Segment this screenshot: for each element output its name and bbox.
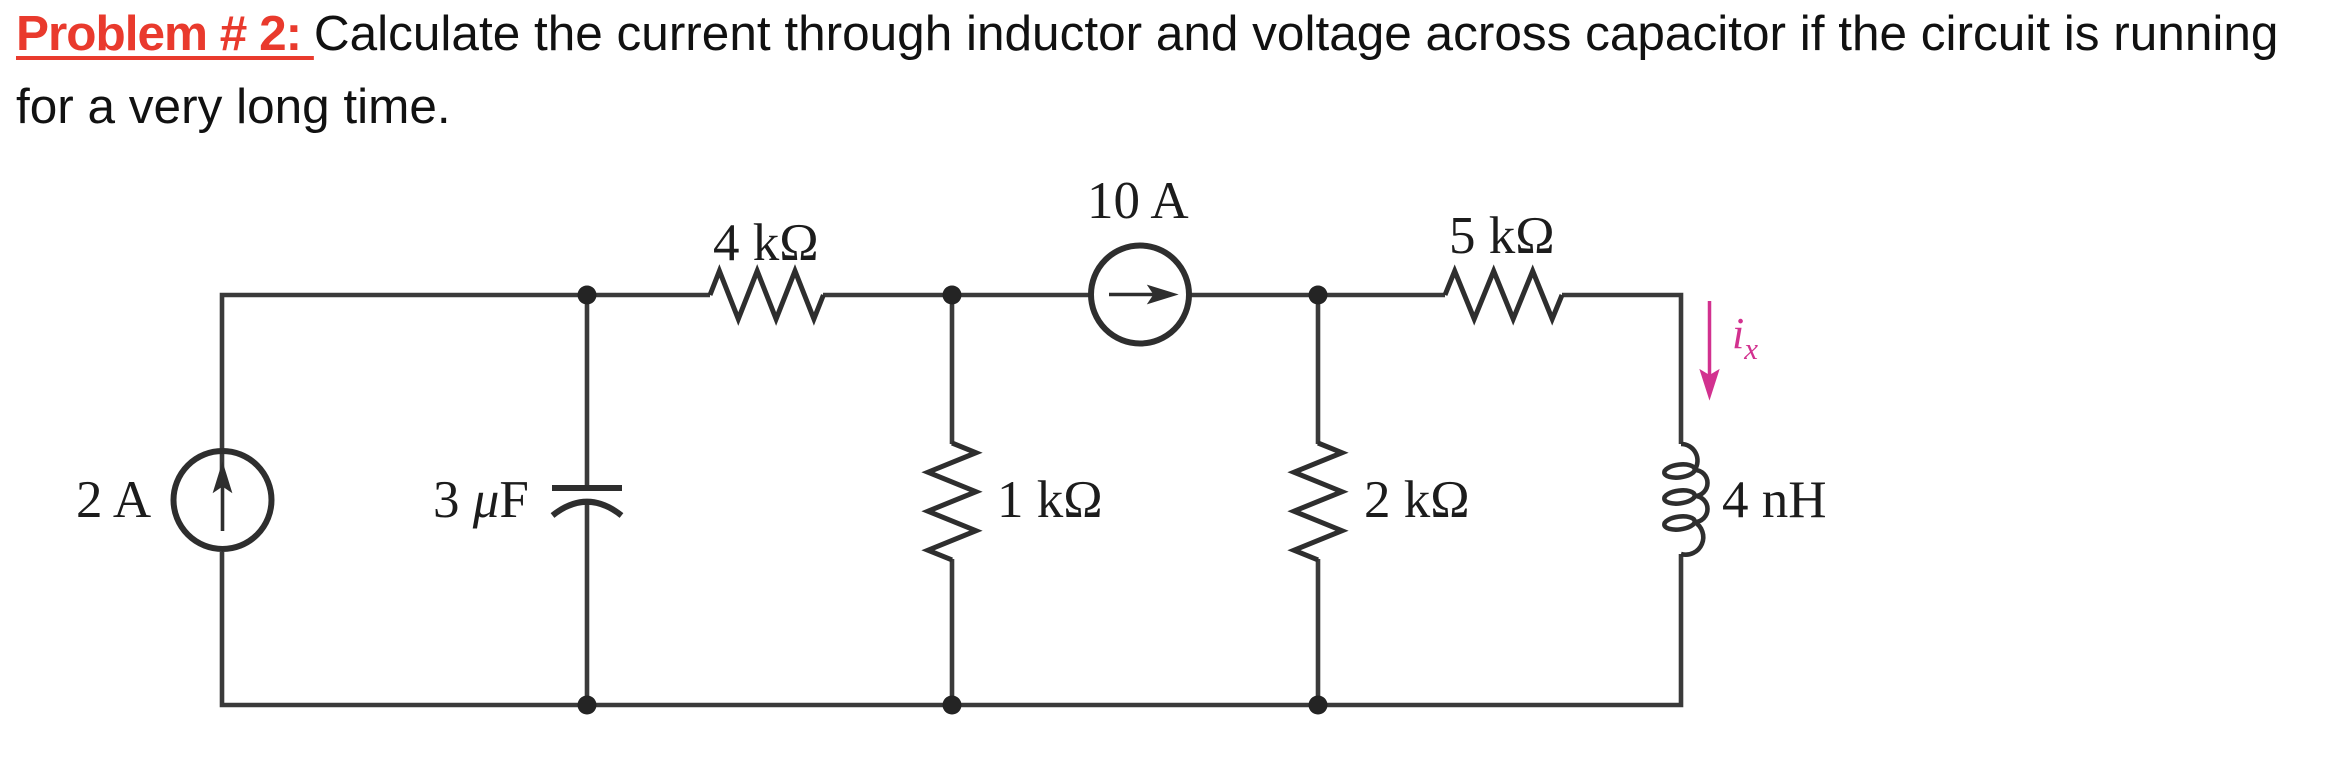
node dot top A (578, 286, 597, 305)
wire capacitor branch top (585, 295, 590, 488)
wire capacitor branch bottom (585, 502, 590, 705)
node dot top C (1309, 286, 1328, 305)
resistor R3 2k zigzag (1294, 443, 1342, 560)
wire 2k branch bottom (1316, 559, 1321, 705)
resistor R1 4k zigzag (710, 271, 823, 319)
wire bottom (222, 552, 1681, 705)
node dot bottom B (943, 696, 962, 715)
wire top-left segment (222, 295, 710, 487)
current source I2 10A (1091, 246, 1189, 344)
svg-text:4 nH: 4 nH (1722, 471, 1827, 529)
wire 2k branch top (1316, 295, 1321, 444)
current source I2 arrow (1109, 286, 1177, 304)
svg-text:ix: ix (1732, 309, 1758, 366)
node dot top B (943, 286, 962, 305)
svg-text:3 μF: 3 μF (433, 471, 529, 529)
node dot bottom A (578, 696, 597, 715)
svg-text:5 kΩ: 5 kΩ (1449, 207, 1555, 265)
svg-text:10 A: 10 A (1087, 172, 1189, 230)
inductor L1 coil (1664, 444, 1708, 555)
capacitor C1 curved plate (553, 502, 622, 516)
current label ix arrow (1700, 301, 1719, 399)
wire top right segment (1191, 293, 1445, 298)
svg-text:2 A: 2 A (76, 471, 151, 529)
wire top far-right corner (1562, 295, 1681, 444)
svg-text:4 kΩ: 4 kΩ (713, 214, 819, 272)
resistor R4 5k zigzag (1445, 271, 1562, 319)
svg-text:2 kΩ: 2 kΩ (1364, 471, 1470, 529)
wire top middle segment (823, 293, 1089, 298)
resistor R2 1k zigzag (928, 443, 976, 560)
wire 1k branch bottom (950, 559, 955, 705)
current source I1 arrow (214, 463, 232, 531)
wire 1k branch top (950, 295, 955, 444)
node dot bottom C (1309, 696, 1328, 715)
capacitor C1 top plate (552, 485, 622, 491)
svg-text:1 kΩ: 1 kΩ (997, 471, 1103, 529)
current source I1 2A (174, 451, 272, 549)
